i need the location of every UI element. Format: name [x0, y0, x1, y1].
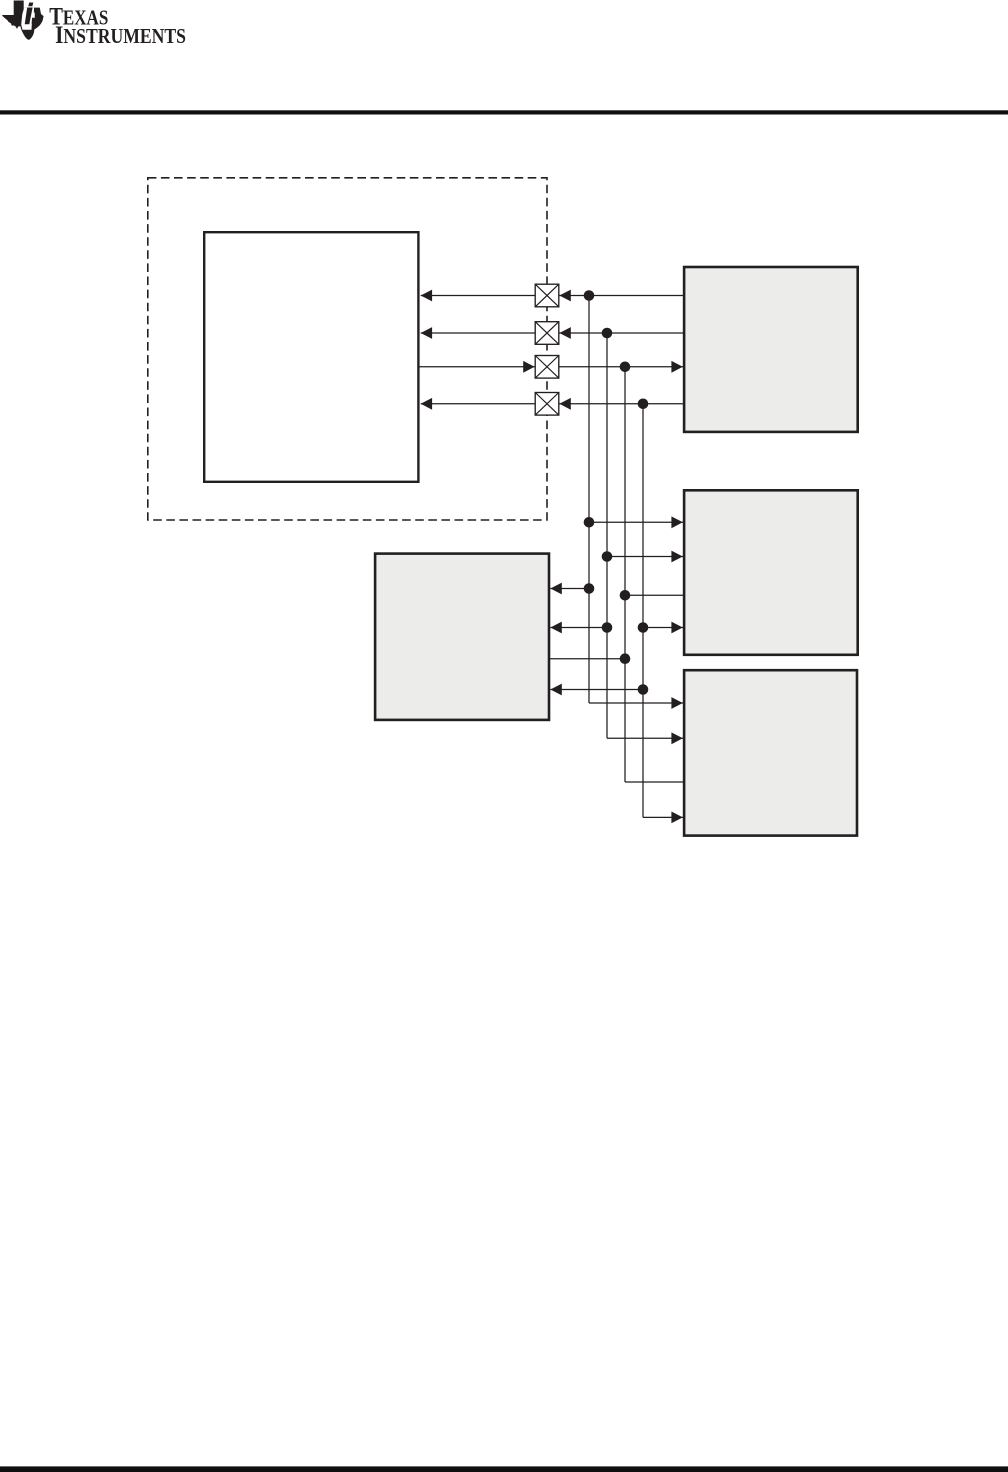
arrow branch B into block2 — [671, 551, 682, 563]
junction dot branch F — [620, 653, 631, 664]
junction dot row4/bus4 — [638, 399, 649, 410]
svg-text:INSTRUMENTS: INSTRUMENTS — [55, 22, 186, 49]
junction dot branch B — [602, 551, 613, 562]
arrow H4 into block3 — [671, 812, 682, 824]
wire row3 pad-to-block1 — [559, 366, 683, 368]
arrow branch C into block4 — [550, 583, 561, 595]
arrow row1 into core — [421, 290, 432, 302]
TI logo wordmark TEXAS INSTRUMENTS — [49, 4, 186, 49]
wire branch G to block4 — [550, 689, 643, 691]
wire bottom H2 to block3 — [607, 737, 683, 739]
wire branch A to block2 — [589, 521, 683, 523]
junction dot branch D — [620, 590, 631, 601]
arrow branch E into block4 — [550, 622, 561, 634]
wire row2 pad-to-block1 — [559, 332, 683, 334]
junction dot branch E right — [638, 622, 649, 633]
peripheral block 2 (middle right gray box) — [684, 490, 858, 655]
junction dot branch A — [584, 517, 595, 528]
arrow row4 into pad X4 — [559, 398, 570, 410]
junction dot row2/bus2 — [602, 328, 613, 339]
I/O pad X2 — [535, 322, 559, 345]
wire row4 pad-to-block1 — [559, 403, 683, 405]
junction dot branch E left — [602, 622, 613, 633]
junction dot branch G — [638, 684, 649, 695]
wire branch E left to block4 — [550, 627, 607, 629]
wire bottom H3 to block3 — [625, 781, 685, 783]
arrow H2 into block3 — [671, 732, 682, 744]
footer rule — [0, 1466, 1008, 1472]
wire bottom H4 to block3 — [643, 816, 683, 818]
arrow row4 into core — [421, 398, 432, 410]
wire row1 pad-to-block1 — [559, 295, 683, 297]
wire branch F from block4 — [549, 658, 625, 660]
wire bottom H1 to block3 — [589, 702, 683, 704]
arrow row3 into pad X3 — [523, 361, 534, 373]
arrow row1 into pad X1 — [559, 290, 570, 302]
wire row2 core-to-pad — [421, 332, 536, 334]
peripheral block 4 (middle gray box) — [375, 554, 549, 720]
vertical bus wire 2 — [606, 333, 608, 738]
I/O pad X4 — [535, 393, 559, 416]
wire branch B to block2 — [607, 556, 683, 558]
I/O pad X1 — [535, 284, 559, 307]
arrow row2 into core — [421, 327, 432, 339]
arrow branch A into block2 — [671, 516, 682, 528]
header rule — [0, 110, 1008, 114]
peripheral block 3 (bottom right gray box) — [684, 670, 857, 835]
arrow row2 into pad X2 — [559, 327, 570, 339]
wire branch E right to block2 — [643, 627, 683, 629]
junction dot row1/bus1 — [584, 290, 595, 301]
arrow branch G into block4 — [550, 684, 561, 696]
wire branch D to block2 — [625, 594, 685, 596]
vertical bus wire 4 — [642, 404, 644, 818]
arrow branch E into block2 — [671, 622, 682, 634]
junction dot row3/bus3 — [620, 362, 631, 373]
wire branch C to block4 — [550, 588, 589, 590]
wire row4 core-to-pad — [421, 403, 536, 405]
core block (solid white box) — [204, 232, 418, 482]
vertical bus wire 3 — [624, 367, 626, 782]
I/O pad X3 — [535, 356, 559, 379]
TI logo Texas-map icon — [2, 1, 43, 40]
dashed enclosure (device boundary) — [148, 178, 547, 520]
junction dot branch C — [584, 583, 595, 594]
arrow row3 into block1 — [671, 361, 682, 373]
arrow H1 into block3 — [671, 697, 682, 709]
peripheral block 1 (top right gray box) — [684, 267, 858, 432]
wire row1 core-to-pad — [421, 295, 536, 297]
vertical bus wire 1 — [588, 296, 590, 704]
wire row3 core-to-pad — [420, 366, 535, 368]
